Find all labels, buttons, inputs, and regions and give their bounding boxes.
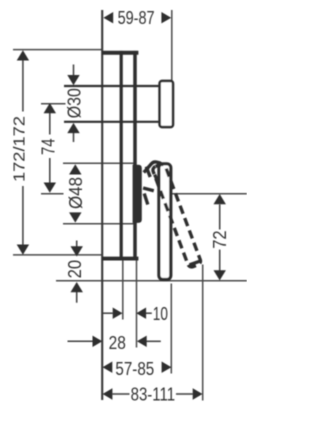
svg-text:74: 74	[39, 138, 59, 155]
svg-text:Ø48: Ø48	[66, 177, 86, 209]
svg-text:20: 20	[65, 260, 85, 279]
svg-text:28: 28	[109, 333, 126, 353]
svg-text:72: 72	[210, 230, 230, 248]
svg-text:59-87: 59-87	[118, 8, 155, 28]
svg-text:172/172: 172/172	[12, 116, 29, 182]
svg-text:Ø30: Ø30	[65, 88, 85, 118]
svg-text:83-111: 83-111	[131, 384, 176, 404]
svg-text:57-85: 57-85	[115, 359, 154, 379]
svg-text:10: 10	[153, 304, 168, 324]
